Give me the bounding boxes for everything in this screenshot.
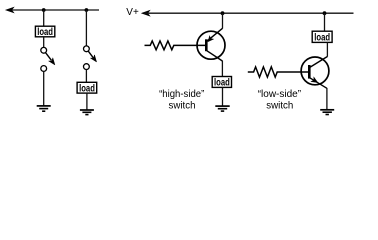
arrow: V+ rail arrowhead pointing left (142, 10, 150, 16)
wire: switch SW1 to ground (43, 71, 45, 105)
svg-text:V+: V+ (126, 7, 139, 18)
wire: V+ supply rail (right) (144, 12, 354, 14)
wire: left top supply rail (8, 9, 99, 11)
wire: load box 1 to switch SW1 (43, 37, 45, 48)
wire: load box 2 to ground (86, 93, 88, 110)
svg-text:“low-side”: “low-side” (258, 89, 302, 100)
svg-text:switch: switch (169, 100, 196, 111)
svg-text:load: load (214, 78, 230, 89)
wire: rail to switch SW2 (85, 10, 87, 46)
node: junction dot low-side load (323, 11, 327, 15)
resistor R1 (base resistor, high-side) (145, 41, 207, 50)
wire: Q1 collector to load box 3 (221, 61, 223, 77)
ground (branch 1) (37, 106, 51, 111)
svg-text:switch: switch (266, 100, 293, 111)
resistor R2 (base resistor, low-side) (248, 67, 309, 77)
node: junction dot branch 2 (85, 8, 89, 12)
wire: Q1 emitter to V+ rail (222, 13, 224, 28)
wire: load box 3 to ground (222, 87, 224, 105)
switch SW2 (open, arrow blade) (84, 46, 97, 70)
wire: load box 4 to Q2 collector (326, 42, 328, 56)
wire: Q2 emitter to ground (326, 88, 328, 110)
switch SW1 (open, arrow blade) (41, 47, 55, 71)
wire: V+ rail to load box 4 (324, 13, 326, 31)
wire: switch SW2 to load box 2 (85, 70, 87, 83)
svg-text:“high-side”: “high-side” (159, 89, 205, 100)
load box 3 (high-side load) (212, 77, 231, 89)
node: junction dot branch 1 (42, 8, 46, 12)
label: "low-side" switch (258, 89, 302, 111)
load box 2 (77, 82, 97, 94)
ground (high-side load) (215, 106, 229, 111)
svg-text:load: load (37, 27, 53, 38)
transistor Q1 (PNP, high-side switch) (197, 28, 225, 61)
label: "high-side" switch (159, 89, 205, 111)
wire: rail to load box 1 (43, 10, 45, 26)
svg-text:load: load (79, 83, 95, 94)
load box 4 (low-side load) (312, 31, 332, 43)
arrow: left rail arrowhead pointing left (6, 7, 14, 12)
node: junction dot high-side emitter (221, 11, 225, 15)
ground (low-side emitter) (320, 110, 334, 115)
transistor Q2 (NPN, low-side switch) (301, 57, 329, 89)
load box 1 (35, 26, 54, 38)
svg-text:load: load (314, 32, 330, 43)
ground (branch 2) (80, 110, 94, 115)
